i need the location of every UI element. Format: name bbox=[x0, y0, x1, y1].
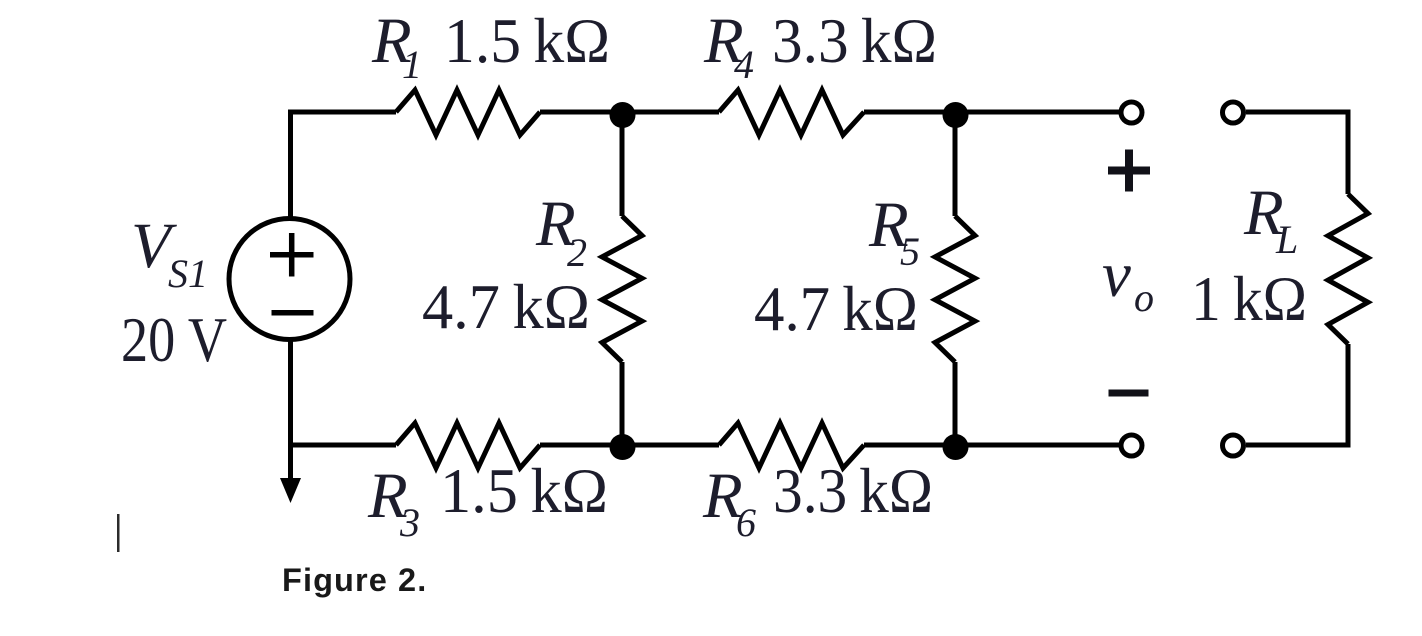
RL terminal bottom bbox=[1223, 435, 1244, 456]
svg-text:20 V: 20 V bbox=[121, 305, 227, 375]
source minus sign bbox=[272, 310, 314, 316]
svg-text:1.5 kΩ: 1.5 kΩ bbox=[440, 456, 608, 526]
resistor R3 bbox=[396, 423, 540, 468]
text cursor mark bbox=[117, 514, 120, 552]
wire: R2 bottom to node B bbox=[620, 362, 625, 445]
svg-text:6: 6 bbox=[736, 500, 756, 545]
wire: RL bottom lead bbox=[1246, 344, 1348, 445]
svg-text:o: o bbox=[1134, 275, 1154, 320]
svg-text:4: 4 bbox=[734, 42, 754, 87]
svg-text:4.7 kΩ: 4.7 kΩ bbox=[754, 274, 918, 344]
wire: source bottom to ground arrow bbox=[288, 339, 293, 481]
output terminal bottom (-) bbox=[1121, 435, 1142, 456]
source plus sign bbox=[270, 233, 314, 277]
svg-text:L: L bbox=[1275, 217, 1298, 262]
wire: R1 to R4 through node A bbox=[540, 110, 719, 115]
svg-text:Figure 2.: Figure 2. bbox=[282, 562, 427, 598]
resistor R6 bbox=[719, 423, 864, 468]
resistor R5 bbox=[935, 216, 975, 362]
wire: bottom rail left (source to R3) bbox=[291, 443, 397, 448]
output plus sign bbox=[1108, 150, 1150, 192]
wire: node A to R2 top bbox=[620, 112, 625, 216]
wire: RL top lead bbox=[1246, 112, 1348, 194]
resistor R2 bbox=[602, 216, 642, 362]
svg-text:2: 2 bbox=[567, 230, 587, 275]
wire: R3 to R6 through node B bbox=[540, 443, 719, 448]
resistor RL bbox=[1328, 194, 1368, 344]
resistor R1 bbox=[396, 90, 540, 135]
svg-text:1: 1 bbox=[402, 42, 422, 87]
wire: R5 bottom to node D bbox=[953, 362, 958, 445]
svg-text:1 kΩ: 1 kΩ bbox=[1191, 264, 1307, 334]
svg-text:4.7 kΩ: 4.7 kΩ bbox=[422, 272, 590, 342]
RL terminal top bbox=[1223, 102, 1244, 123]
svg-text:v: v bbox=[1102, 239, 1131, 311]
svg-text:3.3 kΩ: 3.3 kΩ bbox=[772, 6, 937, 76]
node B junction dot bbox=[610, 434, 636, 460]
svg-text:5: 5 bbox=[900, 229, 920, 274]
node A junction dot bbox=[610, 102, 636, 128]
svg-text:1.5 kΩ: 1.5 kΩ bbox=[444, 6, 610, 76]
node C junction dot bbox=[943, 102, 969, 128]
wire: node C to R5 top bbox=[953, 112, 958, 216]
voltage source V_S1 circle bbox=[229, 219, 350, 340]
ground arrow head bbox=[280, 478, 301, 503]
output terminal top (+) bbox=[1121, 102, 1142, 123]
svg-text:3.3 kΩ: 3.3 kΩ bbox=[773, 456, 933, 526]
wire: source top to R1 left bbox=[291, 112, 397, 219]
output minus sign bbox=[1109, 390, 1149, 397]
svg-text:S1: S1 bbox=[168, 251, 208, 296]
node D junction dot bbox=[943, 434, 969, 460]
svg-text:3: 3 bbox=[399, 500, 420, 545]
resistor R4 bbox=[719, 90, 864, 135]
wire: R4 to output terminal bbox=[864, 110, 1119, 115]
wire: R6 to bottom output terminal bbox=[864, 443, 1119, 448]
